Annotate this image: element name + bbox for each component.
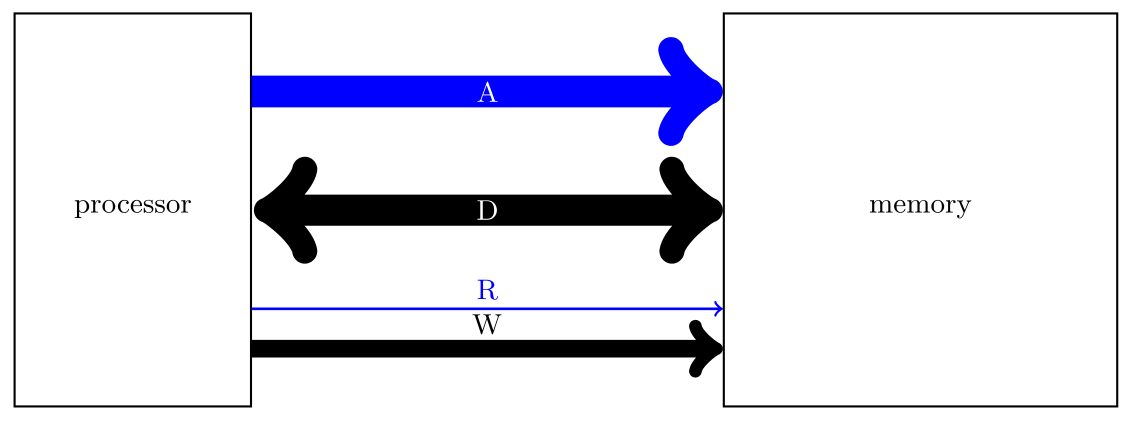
data bus D left arrowhead [266, 169, 304, 251]
label "D" [477, 200, 497, 219]
memory box [724, 13, 1117, 406]
data bus D wire [274, 205, 703, 215]
processor box [15, 13, 251, 406]
read signal R wire (blue) [252, 308, 721, 310]
label "R" [478, 280, 498, 300]
write signal W wire [252, 346, 703, 352]
address bus A wire (blue) [252, 86, 703, 96]
label "memory" [870, 200, 971, 219]
label "processor" [75, 200, 115, 218]
write signal W tip segment [698, 346, 712, 351]
read signal R arrowhead [715, 302, 721, 316]
label "A" [478, 82, 498, 102]
label "W" [473, 314, 502, 334]
write signal W arrowhead [695, 326, 716, 371]
data bus D right arrowhead [672, 169, 710, 251]
address bus A arrowhead [671, 50, 710, 133]
